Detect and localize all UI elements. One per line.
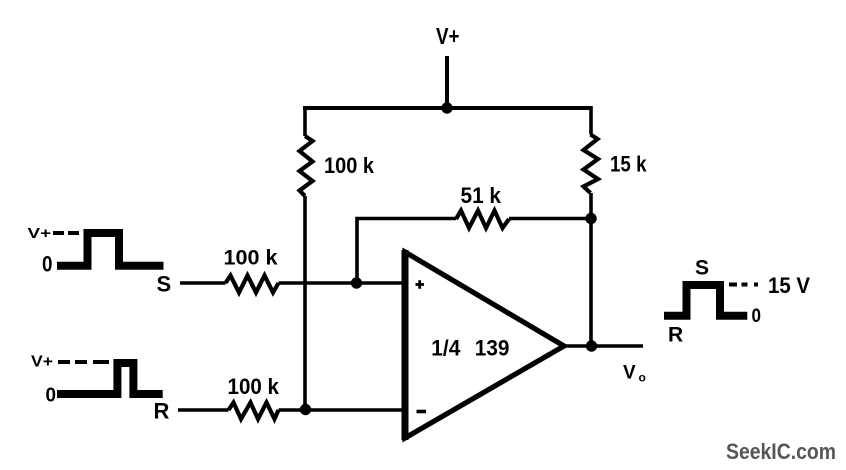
svg-text:100 k: 100 k: [224, 247, 278, 270]
svg-text:R: R: [668, 324, 683, 347]
svg-text:51 k: 51 k: [461, 183, 502, 208]
pin - (inverting input): [417, 410, 427, 414]
pin + (non-inverting input): [416, 280, 425, 288]
dashed level line (R waveform): [58, 360, 109, 364]
svg-text:o: o: [639, 370, 646, 384]
resistor 100k S input: [226, 276, 279, 293]
svg-text:V+: V+: [436, 23, 460, 49]
svg-text:0: 0: [42, 252, 53, 277]
svg-text:S: S: [695, 256, 709, 279]
resistor 100k R input: [229, 403, 279, 420]
svg-text:S: S: [157, 272, 172, 297]
dashed level line (output waveform): [729, 283, 758, 287]
svg-text:1/4: 1/4: [431, 336, 461, 361]
svg-text:139: 139: [475, 336, 510, 361]
wire 51k feedback right segment: [509, 217, 591, 221]
wire output branch vertical: [589, 219, 593, 347]
node pull-up to R line junction: [300, 404, 311, 415]
wire left branch lower: [303, 196, 307, 410]
svg-text:V+: V+: [28, 225, 52, 242]
wire R input left segment: [178, 408, 229, 412]
wire output: [562, 344, 643, 348]
resistor 100k pull-up (left vertical): [300, 136, 313, 196]
node output junction: [586, 340, 597, 351]
wire R input right segment to op-amp: [279, 408, 406, 412]
svg-text:0: 0: [46, 385, 57, 407]
wire right branch upper: [589, 106, 593, 135]
resistor 15k pull-up (right vertical): [584, 135, 599, 194]
wire left branch upper: [303, 106, 307, 136]
R input pulse waveform: [57, 363, 163, 394]
svg-text:15 k: 15 k: [610, 152, 647, 177]
svg-text:15 V: 15 V: [768, 273, 810, 298]
wire 51k feedback left segment: [357, 219, 456, 284]
S input pulse waveform: [57, 233, 164, 266]
svg-text:R: R: [154, 399, 170, 424]
resistor 51k feedback: [456, 211, 509, 229]
svg-text:V: V: [623, 363, 636, 384]
output pulse waveform: [664, 285, 747, 316]
wire S input right segment to op-amp: [279, 281, 406, 285]
op-amp U1 1/4 139: [405, 252, 564, 438]
wire top rail: [303, 106, 592, 110]
svg-text:100 k: 100 k: [324, 153, 375, 178]
op-amp left edge thick: [402, 250, 409, 440]
svg-text:SeekIC.com: SeekIC.com: [726, 439, 836, 464]
wire S input left segment: [180, 281, 226, 285]
node 51k-15k junction: [585, 213, 596, 224]
svg-text:0: 0: [752, 306, 762, 327]
svg-text:V+: V+: [31, 354, 53, 371]
node feedback tap on + input: [351, 277, 362, 288]
node V+ junction: [441, 102, 452, 113]
svg-text:100 k: 100 k: [228, 374, 280, 399]
wire V+ stub: [445, 56, 449, 108]
wire right branch lower: [589, 193, 593, 218]
dashed level line (S waveform): [53, 231, 79, 235]
